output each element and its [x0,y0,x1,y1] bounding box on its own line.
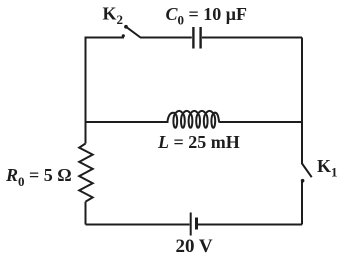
wire middle right segment [219,121,302,123]
wire top right segment [202,37,302,39]
wire bottom left segment [86,224,190,226]
wire left rail lower [85,202,87,225]
svg-text:C0 = 10 μF: C0 = 10 μF [166,4,247,28]
inductor L [167,111,219,128]
wire top-left segment [86,38,125,123]
svg-text:K1: K1 [317,156,338,180]
svg-text:K2: K2 [103,3,124,27]
svg-text:20 V: 20 V [176,236,213,257]
battery 20V [191,213,197,236]
wire top middle segment [140,37,192,39]
switch K1 [301,164,312,183]
resistor R0 [79,144,93,202]
capacitor C0 [193,27,200,49]
wire middle left segment [86,121,169,123]
wire right rail lower [301,181,303,225]
wire right rail upper [301,38,303,165]
wire left rail upper [85,122,87,144]
svg-text:L = 25 mH: L = 25 mH [157,132,240,152]
switch K2 [122,25,141,38]
wire bottom right segment [198,224,302,226]
svg-text:R0 = 5 Ω: R0 = 5 Ω [5,165,72,189]
